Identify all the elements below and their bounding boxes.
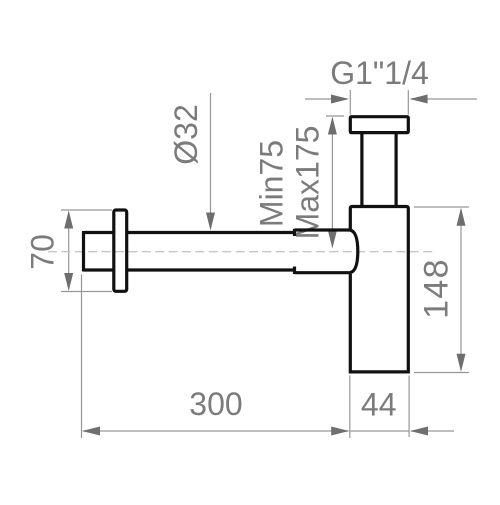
body fill — [350, 207, 408, 372]
sleeve top edge — [295, 228, 351, 231]
wall pipe top edge right of flange — [128, 231, 295, 234]
dim G extension left — [349, 90, 351, 115]
svg-text:Min75: Min75 — [254, 140, 290, 227]
svg-text:148: 148 — [418, 258, 456, 319]
arrow 70 down — [64, 273, 73, 291]
wall pipe top edge left of flange — [84, 231, 113, 234]
arrow 300 left — [82, 427, 100, 436]
dim G line left — [305, 98, 347, 100]
arrow 300 right — [331, 427, 349, 436]
dim 44 line — [351, 430, 409, 432]
svg-text:44: 44 — [361, 387, 397, 423]
wall flange — [114, 210, 127, 291]
dim 148 extension bottom — [414, 372, 469, 374]
arrow minmax down — [328, 231, 337, 249]
dim 70 extension top — [61, 209, 112, 211]
dim 70 extension bottom — [61, 291, 112, 293]
arrow 148 up — [457, 208, 466, 226]
dim 300 line — [83, 430, 349, 432]
dim minmax line — [331, 118, 333, 246]
dim 44 tail — [411, 430, 454, 432]
dim G extension right — [407, 90, 409, 115]
arrow 44 right outside — [410, 427, 428, 436]
arrow 148 down — [457, 354, 466, 372]
arrow d32 down — [206, 213, 215, 231]
riser left edge — [360, 133, 363, 207]
sleeve bottom step — [293, 267, 296, 275]
dim 148 extension top — [414, 206, 469, 208]
dim G line right — [411, 98, 477, 100]
wall pipe bottom edge left of flange — [84, 268, 113, 271]
arrow G left — [331, 95, 349, 104]
riser right edge — [395, 133, 398, 207]
svg-text:300: 300 — [189, 386, 242, 422]
nut fill — [350, 117, 408, 133]
flange fill — [114, 210, 127, 291]
wall pipe bottom edge right of flange — [128, 268, 295, 271]
svg-text:G1"1/4: G1"1/4 — [330, 55, 429, 91]
arrow minmax up — [328, 117, 337, 135]
dim 300 extension right — [349, 376, 351, 439]
svg-text:Max175: Max175 — [290, 126, 326, 240]
dim minmax top tick — [326, 115, 344, 117]
wall pipe left cap — [82, 231, 85, 272]
sleeve top step — [293, 229, 296, 236]
arrow G right — [410, 95, 428, 104]
dim 300 extension left — [81, 275, 83, 439]
trap body outline — [350, 207, 408, 372]
top nut — [350, 117, 408, 133]
dim 148 line — [460, 209, 462, 370]
centerline — [48, 251, 435, 253]
dim 70 line — [68, 212, 70, 289]
sleeve nose — [350, 230, 358, 273]
svg-text:Ø32: Ø32 — [168, 104, 204, 164]
arrow 70 up — [64, 211, 73, 229]
dim diameter 32 line — [210, 93, 212, 228]
dim 44 extension right — [408, 376, 410, 438]
sleeve bottom edge — [295, 271, 351, 274]
